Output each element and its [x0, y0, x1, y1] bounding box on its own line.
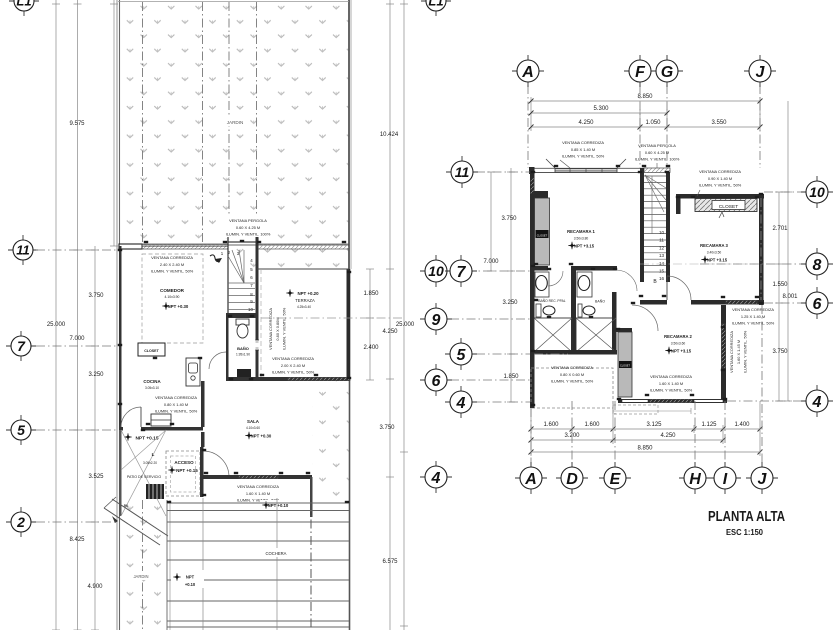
svg-text:5%: 5%	[124, 504, 129, 508]
svg-text:4.10x3.60: 4.10x3.60	[246, 426, 260, 430]
svg-text:10: 10	[809, 184, 825, 200]
svg-text:PLANTA ALTA: PLANTA ALTA	[708, 509, 785, 525]
svg-text:VENTANA CORREDIZA: VENTANA CORREDIZA	[268, 308, 273, 350]
svg-text:VENTANA CORREDIZA: VENTANA CORREDIZA	[650, 374, 692, 379]
svg-text:NPT +0.30: NPT +0.30	[251, 434, 272, 439]
svg-text:L1: L1	[16, 0, 31, 9]
svg-text:1.400: 1.400	[734, 422, 750, 428]
svg-text:A: A	[524, 471, 537, 488]
svg-text:BAÑO REC. PPAL: BAÑO REC. PPAL	[538, 298, 565, 303]
svg-text:4.25x3.40: 4.25x3.40	[297, 305, 311, 309]
svg-text:VENTANA PERGOLA: VENTANA PERGOLA	[638, 143, 676, 148]
svg-text:3.750: 3.750	[772, 349, 788, 355]
svg-text:CLOSET: CLOSET	[537, 233, 548, 237]
svg-text:ILUMIN. Y VENTIL. 50%: ILUMIN. Y VENTIL. 50%	[155, 409, 198, 414]
svg-text:3.750: 3.750	[88, 293, 104, 299]
svg-text:4.250: 4.250	[578, 120, 594, 126]
svg-text:3.125: 3.125	[646, 422, 662, 428]
svg-text:ILUMIN. Y VENTIL. 50%: ILUMIN. Y VENTIL. 50%	[743, 330, 748, 373]
svg-text:10.424: 10.424	[380, 132, 399, 138]
svg-text:25.000: 25.000	[396, 322, 415, 328]
svg-text:1.60 X 1.45 M: 1.60 X 1.45 M	[736, 340, 741, 364]
svg-text:RECAMARA 3: RECAMARA 3	[700, 243, 728, 248]
svg-text:G: G	[661, 64, 673, 81]
svg-text:NPT +0.15: NPT +0.15	[135, 436, 158, 442]
svg-text:ILUMIN. Y VENTIL. 50%: ILUMIN. Y VENTIL. 50%	[562, 154, 605, 159]
svg-text:3.50x3.80: 3.50x3.80	[574, 237, 589, 241]
svg-text:F: F	[635, 64, 646, 81]
svg-text:+0.10: +0.10	[185, 582, 196, 587]
svg-text:NPT: NPT	[186, 575, 195, 580]
svg-text:4.250: 4.250	[660, 433, 676, 439]
svg-text:2.400: 2.400	[363, 345, 379, 351]
svg-text:5.300: 5.300	[593, 106, 609, 112]
svg-text:ILUMIN. Y VENTIL. 50%: ILUMIN. Y VENTIL. 50%	[732, 321, 775, 326]
svg-text:ILUMIN. Y VENTIL. 50%: ILUMIN. Y VENTIL. 50%	[699, 183, 742, 188]
svg-text:8.850: 8.850	[637, 446, 653, 452]
svg-text:SALA: SALA	[247, 419, 260, 424]
svg-text:CLOSET: CLOSET	[144, 349, 159, 353]
svg-text:TERRAZA: TERRAZA	[295, 298, 315, 303]
svg-text:0.80 X 1.40 M: 0.80 X 1.40 M	[164, 402, 188, 407]
svg-text:COMEDOR: COMEDOR	[160, 288, 185, 293]
svg-text:PATIO DE SERVICIO: PATIO DE SERVICIO	[127, 475, 162, 479]
svg-text:VENTANA CORREDIZA: VENTANA CORREDIZA	[562, 140, 604, 145]
svg-text:VENTANA CORREDIZA: VENTANA CORREDIZA	[272, 356, 314, 361]
svg-text:1.95x1.90: 1.95x1.90	[236, 353, 250, 357]
svg-text:NPT +3.15: NPT +3.15	[671, 349, 692, 354]
svg-text:NPT +0.10: NPT +0.10	[268, 503, 289, 508]
svg-text:CLOSET: CLOSET	[719, 204, 739, 210]
svg-text:2.00 X 2.40 M: 2.00 X 2.40 M	[281, 363, 305, 368]
svg-text:D: D	[566, 471, 578, 488]
svg-text:25.000: 25.000	[47, 322, 66, 328]
svg-text:9: 9	[432, 312, 441, 329]
svg-text:BAÑO: BAÑO	[237, 346, 249, 351]
svg-text:VENTANA CORREDIZA: VENTANA CORREDIZA	[155, 395, 197, 400]
svg-text:J: J	[756, 64, 766, 81]
svg-text:NPT +0.30: NPT +0.30	[168, 304, 189, 309]
svg-text:2: 2	[16, 514, 25, 530]
svg-text:15: 15	[659, 269, 665, 274]
svg-text:VENTANA PERGOLA: VENTANA PERGOLA	[229, 218, 267, 223]
svg-text:14: 14	[659, 261, 665, 266]
svg-text:4: 4	[431, 470, 441, 487]
svg-text:VENTANA CORREDIZA: VENTANA CORREDIZA	[151, 255, 193, 260]
svg-text:7.000: 7.000	[69, 336, 85, 342]
svg-text:1.850: 1.850	[363, 291, 379, 297]
svg-text:0.80 X 0.60 M: 0.80 X 0.60 M	[560, 372, 584, 377]
svg-text:COCHERA: COCHERA	[266, 551, 287, 556]
svg-text:CLOSET: CLOSET	[620, 364, 630, 367]
svg-text:ACCESO: ACCESO	[174, 460, 194, 465]
svg-text:4.10x3.90: 4.10x3.90	[165, 295, 180, 299]
svg-text:ILUMIN. Y VENTIL. 50%: ILUMIN. Y VENTIL. 50%	[151, 269, 194, 274]
svg-text:10: 10	[248, 307, 253, 312]
svg-text:ILUMIN. Y VENTIL. 100%: ILUMIN. Y VENTIL. 100%	[635, 157, 680, 162]
svg-text:3.550: 3.550	[711, 120, 727, 126]
svg-text:2.40 X 2.40 M: 2.40 X 2.40 M	[160, 262, 184, 267]
svg-text:3.250: 3.250	[88, 372, 104, 378]
svg-text:1.550: 1.550	[772, 282, 788, 288]
svg-text:NPT +3.15: NPT +3.15	[574, 244, 595, 249]
svg-text:1.850: 1.850	[503, 374, 519, 380]
svg-text:VENTANA CORREDIZA: VENTANA CORREDIZA	[699, 169, 741, 174]
svg-text:I: I	[723, 471, 728, 488]
svg-text:ILUMIN. Y VENTIL. 50%: ILUMIN. Y VENTIL. 50%	[650, 388, 693, 393]
svg-text:7: 7	[17, 338, 26, 354]
svg-text:11: 11	[16, 243, 30, 258]
svg-text:RECAMARA 1: RECAMARA 1	[567, 229, 595, 234]
svg-text:3.05x3.10: 3.05x3.10	[145, 386, 159, 390]
svg-text:5: 5	[457, 347, 467, 364]
svg-text:JARDIN: JARDIN	[227, 120, 244, 125]
svg-text:E: E	[610, 471, 622, 488]
svg-text:12: 12	[659, 245, 665, 250]
svg-text:VENTANA CORREDIZA: VENTANA CORREDIZA	[729, 331, 734, 373]
svg-text:0.80 X 0.80M: 0.80 X 0.80M	[275, 317, 280, 340]
svg-text:13: 13	[659, 253, 665, 258]
svg-text:0.60 X 4.25 M: 0.60 X 4.25 M	[236, 225, 260, 230]
svg-text:VENTANA CORREDIZA: VENTANA CORREDIZA	[732, 307, 774, 312]
svg-text:1.600: 1.600	[543, 422, 559, 428]
svg-text:4.250: 4.250	[382, 329, 398, 335]
svg-text:RECAMARA 2: RECAMARA 2	[664, 334, 692, 339]
svg-text:9.575: 9.575	[69, 121, 85, 127]
svg-text:10: 10	[659, 230, 665, 235]
svg-text:ILUMIN. Y VENTIL. 50%: ILUMIN. Y VENTIL. 50%	[551, 379, 594, 384]
svg-text:6: 6	[813, 296, 822, 313]
svg-text:5: 5	[17, 422, 25, 438]
svg-text:NPT +3.15: NPT +3.15	[707, 258, 728, 263]
svg-text:0.85 X 1.40 M: 0.85 X 1.40 M	[571, 147, 595, 152]
svg-text:3.05x2.20: 3.05x2.20	[143, 461, 157, 465]
svg-text:1.25 X 1.40 M: 1.25 X 1.40 M	[741, 314, 765, 319]
svg-text:BAÑO: BAÑO	[595, 299, 605, 304]
svg-text:JARDIN: JARDIN	[133, 574, 148, 579]
svg-text:NPT +0.15: NPT +0.15	[176, 468, 198, 473]
svg-text:1.60 X 1.40 M: 1.60 X 1.40 M	[659, 381, 683, 386]
svg-text:0.90 X 1.40 M: 0.90 X 1.40 M	[708, 176, 732, 181]
svg-text:ILUMIN. Y VENTIL. 50%: ILUMIN. Y VENTIL. 50%	[272, 370, 315, 375]
svg-text:16: 16	[659, 276, 665, 281]
svg-text:3.40x3.50: 3.40x3.50	[707, 251, 722, 255]
svg-text:3.750: 3.750	[379, 425, 395, 431]
svg-text:J: J	[758, 471, 768, 488]
svg-text:3.250: 3.250	[502, 300, 518, 306]
svg-text:8.425: 8.425	[69, 537, 85, 543]
svg-text:7: 7	[457, 264, 467, 281]
svg-text:6.575: 6.575	[382, 559, 398, 565]
svg-text:7.000: 7.000	[483, 259, 499, 265]
svg-text:3.525: 3.525	[88, 474, 104, 480]
svg-text:ESC 1:150: ESC 1:150	[726, 528, 763, 537]
svg-text:3.750: 3.750	[501, 216, 517, 222]
svg-text:8.001: 8.001	[782, 294, 798, 300]
svg-text:ILUMIN. Y VENTIL. 100%: ILUMIN. Y VENTIL. 100%	[226, 232, 271, 237]
svg-text:VENTANA CORREDIZA: VENTANA CORREDIZA	[237, 484, 279, 489]
svg-text:1.125: 1.125	[701, 422, 717, 428]
svg-text:1.050: 1.050	[645, 120, 661, 126]
svg-text:COCINA: COCINA	[143, 379, 161, 384]
svg-text:H: H	[689, 471, 701, 488]
svg-text:NPT +0.20: NPT +0.20	[297, 291, 319, 296]
svg-text:2.701: 2.701	[772, 226, 788, 232]
svg-text:L1: L1	[428, 0, 443, 9]
svg-text:4.900: 4.900	[87, 584, 103, 590]
svg-text:0.60 X 4.25 M: 0.60 X 4.25 M	[645, 150, 669, 155]
svg-text:11: 11	[659, 238, 664, 243]
svg-text:10: 10	[428, 263, 444, 279]
svg-text:3.50x3.60: 3.50x3.60	[671, 342, 686, 346]
svg-text:6: 6	[432, 373, 441, 390]
svg-text:ILUMIN. Y VENTIL. 50%: ILUMIN. Y VENTIL. 50%	[282, 307, 287, 350]
svg-text:A: A	[521, 64, 534, 81]
svg-text:L: L	[152, 452, 155, 457]
svg-text:4: 4	[812, 394, 822, 411]
svg-text:1.600: 1.600	[584, 422, 600, 428]
svg-text:1.60 X 1.40 M: 1.60 X 1.40 M	[246, 491, 270, 496]
svg-text:VENTANA CORREDIZA: VENTANA CORREDIZA	[551, 365, 593, 370]
svg-text:11: 11	[455, 164, 470, 180]
svg-text:8: 8	[813, 257, 822, 274]
svg-text:4: 4	[456, 395, 466, 412]
